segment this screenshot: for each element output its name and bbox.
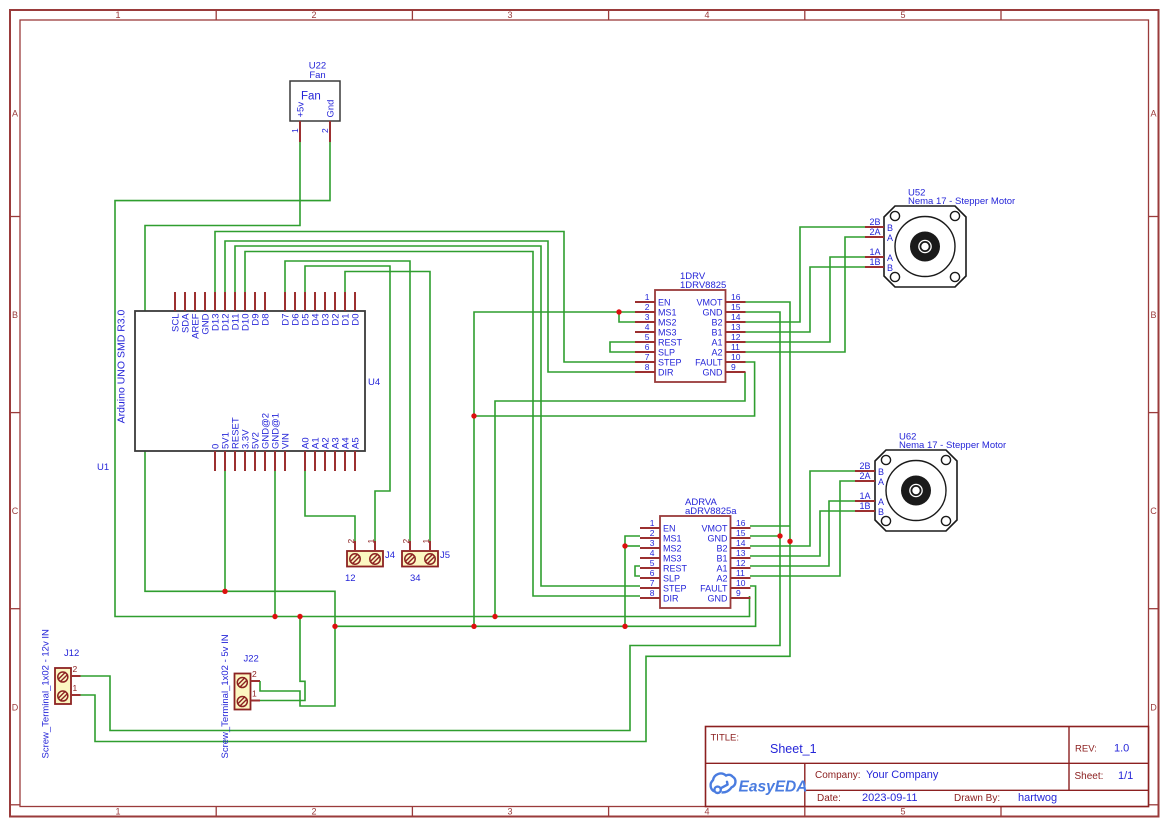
- screw terminal J22 Screw_Terminal_1x02 - 5v IN: [220, 634, 259, 758]
- U52 pin 2B: [865, 217, 893, 233]
- svg-text:2: 2: [645, 302, 650, 312]
- Arduino pin D2 (top): [331, 292, 342, 326]
- wire Arduino D11 to U3 STEP: [235, 246, 640, 586]
- svg-text:16: 16: [731, 292, 741, 302]
- U3 pin 11 A2: [716, 568, 750, 583]
- svg-text:B2: B2: [716, 544, 727, 554]
- J12 pin 1: [71, 683, 81, 695]
- svg-text:MS2: MS2: [663, 544, 682, 554]
- wire U2 FAULT to +5V vertical: [474, 362, 755, 416]
- svg-text:1/1: 1/1: [1118, 770, 1133, 782]
- svg-text:A: A: [878, 477, 884, 487]
- Arduino pin D5 (top): [301, 292, 312, 326]
- wire U3 B2 to U62 2B: [750, 471, 855, 546]
- junction dot at 225,591.3: [222, 589, 227, 594]
- U2 pin 1 EN: [635, 292, 671, 307]
- U2 pin 13 B1: [711, 322, 745, 337]
- svg-text:GND: GND: [708, 594, 729, 604]
- svg-text:GND: GND: [703, 368, 724, 378]
- Arduino pin D13 (top): [211, 292, 222, 331]
- U3 pin 3 MS2: [640, 538, 682, 553]
- Arduino pin A4 (bottom): [341, 437, 352, 471]
- svg-text:D0: D0: [351, 314, 362, 326]
- svg-text:MS1: MS1: [658, 308, 677, 318]
- Arduino pin D6 (top): [291, 292, 302, 326]
- svg-text:2: 2: [311, 10, 316, 20]
- svg-text:A: A: [878, 497, 884, 507]
- svg-text:C: C: [12, 506, 19, 516]
- Arduino pin D8 (top): [261, 292, 272, 326]
- svg-text:D: D: [12, 703, 19, 713]
- svg-text:1A: 1A: [869, 247, 880, 257]
- U3 pin 13 B1: [716, 548, 750, 563]
- Arduino pin D3 (top): [321, 292, 332, 326]
- J4 pin 1: [366, 539, 376, 552]
- junction dot at 474,626.3: [471, 624, 476, 629]
- svg-text:FAULT: FAULT: [695, 358, 723, 368]
- svg-text:12: 12: [345, 573, 356, 584]
- svg-text:2023-09-11: 2023-09-11: [862, 792, 917, 804]
- svg-text:DIR: DIR: [663, 594, 679, 604]
- J22 pin 2: [251, 669, 261, 681]
- svg-text:SLP: SLP: [658, 348, 675, 358]
- fan U22 pin 2: [320, 121, 330, 142]
- svg-text:8: 8: [645, 362, 650, 372]
- svg-text:2A: 2A: [869, 227, 880, 237]
- svg-text:J22: J22: [244, 654, 259, 665]
- svg-text:Arduino UNO SMD R3.0: Arduino UNO SMD R3.0: [116, 309, 128, 423]
- svg-text:EasyEDA: EasyEDA: [739, 779, 808, 796]
- svg-text:REST: REST: [658, 338, 683, 348]
- svg-text:B: B: [878, 507, 884, 517]
- wire U2 GND9 to GND rail: [495, 372, 745, 617]
- Arduino pin SCL (top): [171, 292, 182, 332]
- U2 pin 14 B2: [711, 312, 745, 327]
- svg-text:B2: B2: [711, 318, 722, 328]
- svg-text:1: 1: [366, 539, 376, 544]
- svg-text:13: 13: [731, 322, 741, 332]
- U3 pin 2 MS1: [640, 528, 682, 543]
- svg-text:2B: 2B: [859, 461, 870, 471]
- junction dot at 275,616.5: [272, 614, 277, 619]
- svg-text:STEP: STEP: [658, 358, 682, 368]
- stepper driver U2 1DRV8825: [655, 271, 726, 382]
- junction dot at 780,536: [777, 533, 782, 538]
- Arduino pin A3 (bottom): [331, 437, 342, 471]
- wire Arduino A0 to J4 pin2: [305, 471, 355, 541]
- wire U3 B1 to U62 1B: [750, 511, 855, 556]
- U2 pin 5 REST: [635, 332, 683, 347]
- svg-text:B: B: [887, 223, 893, 233]
- Arduino pin 5V1 (bottom): [221, 432, 232, 471]
- wire U3 REST-SLP tie: [635, 566, 640, 576]
- junction dot at 474,416: [471, 413, 476, 418]
- junction dot at 300,616.5: [297, 614, 302, 619]
- junction dot at 619,312: [616, 309, 621, 314]
- svg-text:MS3: MS3: [663, 554, 682, 564]
- svg-text:1.0: 1.0: [1114, 743, 1129, 755]
- svg-text:A: A: [887, 233, 893, 243]
- U3 pin 1 EN: [640, 518, 676, 533]
- svg-text:2: 2: [73, 664, 78, 674]
- svg-text:A: A: [1150, 109, 1156, 119]
- Arduino pin SDA (top): [181, 292, 192, 333]
- U3 pin 5 REST: [640, 558, 688, 573]
- svg-text:B: B: [887, 263, 893, 273]
- svg-text:13: 13: [736, 548, 746, 558]
- svg-text:1: 1: [73, 683, 78, 693]
- junction dot at 625,626.3: [622, 624, 627, 629]
- svg-text:12: 12: [736, 558, 746, 568]
- Arduino pin D9 (top): [251, 292, 262, 326]
- svg-text:2: 2: [320, 128, 330, 133]
- title block: [706, 727, 1149, 807]
- svg-text:VMOT: VMOT: [697, 298, 724, 308]
- svg-text:A: A: [12, 109, 18, 119]
- U2 pin 4 MS3: [635, 322, 677, 337]
- svg-text:hartwog: hartwog: [1018, 792, 1057, 804]
- U2 pin 9 GND: [703, 362, 746, 377]
- svg-text:6: 6: [650, 568, 655, 578]
- Arduino pin GND@1 (bottom): [271, 413, 282, 471]
- wire Arduino D10 to U3 DIR: [245, 252, 640, 597]
- Arduino pin D12 (top): [221, 292, 232, 331]
- svg-text:A1: A1: [711, 338, 722, 348]
- svg-text:7: 7: [645, 352, 650, 362]
- U2 pin 16 VMOT: [697, 292, 746, 307]
- svg-text:B: B: [878, 467, 884, 477]
- U3 pin 8 DIR: [640, 588, 679, 603]
- svg-text:3: 3: [645, 312, 650, 322]
- svg-text:aDRV8825a: aDRV8825a: [685, 506, 737, 517]
- U3 pin 14 B2: [716, 538, 750, 553]
- svg-text:1B: 1B: [869, 257, 880, 267]
- svg-text:10: 10: [731, 352, 741, 362]
- wire Arduino D7 to J5 pin2: [285, 261, 410, 541]
- svg-text:Company:: Company:: [815, 770, 861, 781]
- svg-text:J12: J12: [64, 648, 79, 659]
- svg-text:EN: EN: [663, 524, 676, 534]
- svg-text:1: 1: [290, 128, 300, 133]
- U62 pin 1A: [855, 491, 884, 507]
- svg-text:Drawn By:: Drawn By:: [954, 793, 1000, 804]
- U2 pin 3 MS2: [635, 312, 677, 327]
- Arduino pin VIN (bottom): [281, 433, 292, 471]
- stepper motor U52 Nema 17: [884, 188, 1015, 288]
- screw terminal J4: [345, 550, 395, 584]
- svg-text:1: 1: [645, 292, 650, 302]
- J5 pin 2: [401, 539, 411, 552]
- svg-text:1B: 1B: [859, 501, 870, 511]
- svg-text:Sheet_1: Sheet_1: [770, 742, 817, 756]
- svg-text:REV:: REV:: [1075, 744, 1097, 755]
- Arduino pin D1 (top): [341, 292, 352, 326]
- svg-text:GND: GND: [703, 308, 724, 318]
- fan U22 pin 1: [290, 121, 300, 142]
- U3 pin 12 A1: [716, 558, 750, 573]
- U2 pin 12 A1: [711, 332, 745, 347]
- wire Arduino D12 to U2 DIR: [225, 241, 635, 372]
- svg-text:1: 1: [115, 806, 120, 816]
- junction dot at 625,546: [622, 543, 627, 548]
- stepper driver U3 aDRV8825a: [660, 497, 737, 608]
- svg-text:Date:: Date:: [817, 793, 841, 804]
- svg-text:A1: A1: [716, 564, 727, 574]
- svg-text:STEP: STEP: [663, 584, 687, 594]
- screw terminal J12 Screw_Terminal_1x02 - 12v IN: [41, 629, 80, 758]
- wire U3 VMOT spur: [750, 525, 790, 527]
- svg-text:Fan: Fan: [301, 91, 321, 103]
- svg-text:A2: A2: [716, 574, 727, 584]
- wire Arduino D1 to J5 pin1: [345, 272, 430, 542]
- svg-text:B: B: [12, 310, 18, 320]
- Arduino pin RESET (bottom): [231, 417, 242, 471]
- svg-text:1: 1: [252, 689, 257, 699]
- Arduino pin 3.3V (bottom): [241, 429, 252, 471]
- svg-text:11: 11: [731, 342, 740, 352]
- wire U2 MS1 to +5V vertical: [474, 312, 635, 626]
- svg-text:5: 5: [900, 806, 905, 816]
- wire net +5V: U22 fan pin1 to 5V1 rail, J22 pin2: [145, 142, 335, 706]
- svg-text:J5: J5: [440, 550, 450, 561]
- svg-text:Screw_Terminal_1x02 - 5v IN: Screw_Terminal_1x02 - 5v IN: [220, 634, 231, 758]
- svg-text:4: 4: [704, 10, 709, 20]
- wire U3 MS1 to +5V rail: [625, 536, 640, 626]
- svg-text:5: 5: [650, 558, 655, 568]
- svg-text:2: 2: [346, 539, 356, 544]
- svg-text:U1: U1: [97, 462, 109, 473]
- svg-text:U4: U4: [368, 377, 380, 388]
- svg-text:5: 5: [645, 332, 650, 342]
- svg-text:5: 5: [900, 10, 905, 20]
- U3 pin 10 FAULT: [700, 578, 750, 593]
- wire U2 A1 to U52 1A: [745, 257, 865, 342]
- U2 pin 8 DIR: [635, 362, 674, 377]
- svg-text:12: 12: [731, 332, 741, 342]
- svg-text:34: 34: [410, 573, 421, 584]
- wire U3 MS2 spur: [625, 545, 640, 547]
- svg-text:2A: 2A: [859, 471, 870, 481]
- wire U3 GND15 spur: [750, 535, 780, 537]
- svg-text:2B: 2B: [869, 217, 880, 227]
- svg-text:B1: B1: [711, 328, 722, 338]
- svg-text:15: 15: [731, 302, 741, 312]
- wire U2 MS2 spur: [619, 312, 635, 322]
- Arduino pin A1 (bottom): [311, 437, 322, 471]
- U62 pin 2A: [855, 471, 884, 487]
- svg-text:Nema 17 - Stepper Motor: Nema 17 - Stepper Motor: [908, 196, 1015, 207]
- fan U22: [290, 61, 340, 122]
- svg-text:Gnd: Gnd: [326, 100, 337, 118]
- wire net GND: U22 fan pin2 to GND rail to U3 GND9: [115, 142, 750, 617]
- EasyEDA logo: [711, 774, 808, 796]
- wire VMOT trunk U2 VMOT to J12 pin1: [80, 302, 790, 742]
- svg-text:1: 1: [115, 10, 120, 20]
- svg-text:D: D: [1150, 703, 1157, 713]
- wire U2 REST-SLP tie: [610, 342, 635, 352]
- svg-text:A5: A5: [351, 437, 362, 449]
- svg-text:VIN: VIN: [281, 433, 292, 449]
- U2 pin 10 FAULT: [695, 352, 745, 367]
- U2 pin 7 STEP: [635, 352, 682, 367]
- J12 pin 2: [71, 664, 81, 676]
- U2 pin 15 GND: [703, 302, 746, 317]
- wire GND rail to J22 pin1: [260, 617, 305, 701]
- svg-text:2: 2: [252, 669, 257, 679]
- U3 pin 16 VMOT: [702, 518, 751, 533]
- svg-text:4: 4: [704, 806, 709, 816]
- wire U2 B1 to U52 1B: [745, 267, 865, 332]
- Arduino pin GND (top): [201, 292, 212, 335]
- svg-text:Screw_Terminal_1x02 - 12v IN: Screw_Terminal_1x02 - 12v IN: [41, 629, 52, 758]
- svg-text:GND: GND: [708, 534, 729, 544]
- svg-text:4: 4: [650, 548, 655, 558]
- wire U2 B2 to U52 2B: [745, 227, 865, 322]
- svg-text:EN: EN: [658, 298, 671, 308]
- svg-text:2: 2: [401, 539, 411, 544]
- Arduino pin A5 (bottom): [351, 437, 362, 471]
- Arduino pin D0 (top): [351, 292, 362, 326]
- Arduino pin D11 (top): [231, 292, 242, 330]
- wire net +5V horizontal rail to U3 FAULT: [335, 586, 756, 626]
- svg-text:Fan: Fan: [309, 70, 325, 81]
- svg-text:7: 7: [650, 578, 655, 588]
- svg-text:9: 9: [731, 362, 736, 372]
- Arduino pin 0 (bottom): [211, 444, 222, 471]
- svg-text:3: 3: [650, 538, 655, 548]
- junction dot at 335,626.3: [332, 624, 337, 629]
- svg-text:Nema 17 - Stepper Motor: Nema 17 - Stepper Motor: [899, 440, 1006, 451]
- U62 pin 1B: [855, 501, 884, 517]
- U52 pin 1B: [865, 257, 893, 273]
- Arduino pin 5V2 (bottom): [251, 432, 262, 471]
- Arduino pin D4 (top): [311, 292, 322, 326]
- svg-text:FAULT: FAULT: [700, 584, 728, 594]
- svg-text:D8: D8: [261, 314, 272, 326]
- svg-text:B: B: [1150, 310, 1156, 320]
- wire Arduino D13 to U2 STEP: [215, 232, 635, 363]
- U52 pin 1A: [865, 247, 893, 263]
- svg-text:9: 9: [736, 588, 741, 598]
- svg-text:1: 1: [650, 518, 655, 528]
- svg-text:8: 8: [650, 588, 655, 598]
- stepper motor U62 Nema 17: [875, 432, 1006, 532]
- wire Arduino D5 to J4 pin1: [305, 266, 390, 541]
- U3 pin 6 SLP: [640, 568, 680, 583]
- junction dot at 495,616.5: [492, 614, 497, 619]
- svg-text:C: C: [1150, 506, 1157, 516]
- svg-text:2: 2: [311, 806, 316, 816]
- U62 pin 2B: [855, 461, 884, 477]
- svg-text:REST: REST: [663, 564, 688, 574]
- Arduino pin A0 (bottom): [301, 437, 312, 471]
- Arduino pin GND@2 (bottom): [261, 413, 272, 471]
- wire Arduino 5V1 to +5V rail: [224, 471, 226, 591]
- svg-text:1: 1: [421, 539, 431, 544]
- svg-text:Your Company: Your Company: [866, 769, 939, 781]
- svg-text:DIR: DIR: [658, 368, 674, 378]
- svg-text:10: 10: [736, 578, 746, 588]
- svg-text:6: 6: [645, 342, 650, 352]
- Arduino pin D7 (top): [281, 292, 292, 326]
- U2 pin 11 A2: [711, 342, 745, 357]
- svg-text:2: 2: [650, 528, 655, 538]
- Arduino pin D10 (top): [241, 292, 252, 331]
- junction dot at 790,541.3: [787, 539, 792, 544]
- svg-text:16: 16: [736, 518, 746, 528]
- svg-text:J4: J4: [385, 550, 395, 561]
- J4 pin 2: [346, 539, 356, 552]
- Arduino pin AREF (top): [191, 292, 202, 339]
- wire GND trunk U2 GND15 to J12 pin2: [80, 312, 780, 731]
- Arduino UNO U1/U4 body: [97, 309, 380, 473]
- U3 pin 9 GND: [708, 588, 751, 603]
- svg-text:3: 3: [507, 806, 512, 816]
- wire U2 A2 to U52 2A: [745, 237, 865, 352]
- svg-text:3: 3: [507, 10, 512, 20]
- svg-text:B1: B1: [716, 554, 727, 564]
- svg-text:A: A: [887, 253, 893, 263]
- wire U3 A2 to U62 2A: [750, 481, 855, 576]
- U3 pin 4 MS3: [640, 548, 682, 563]
- svg-text:SLP: SLP: [663, 574, 680, 584]
- svg-text:1A: 1A: [859, 491, 870, 501]
- U2 pin 6 SLP: [635, 342, 675, 357]
- svg-text:MS3: MS3: [658, 328, 677, 338]
- svg-text:1DRV8825: 1DRV8825: [680, 280, 726, 291]
- U2 pin 2 MS1: [635, 302, 677, 317]
- U3 pin 15 GND: [708, 528, 751, 543]
- wire Arduino GND@1 to GND rail: [274, 471, 276, 617]
- wire U3 A1 to U62 1A: [750, 501, 855, 566]
- svg-text:Sheet:: Sheet:: [1075, 771, 1104, 782]
- svg-text:14: 14: [736, 538, 746, 548]
- svg-text:MS1: MS1: [663, 534, 682, 544]
- svg-text:14: 14: [731, 312, 741, 322]
- svg-text:11: 11: [736, 568, 745, 578]
- svg-text:4: 4: [645, 322, 650, 332]
- J22 pin 1: [251, 689, 261, 701]
- svg-text:15: 15: [736, 528, 746, 538]
- Arduino pin A2 (bottom): [321, 437, 332, 471]
- svg-text:+5v: +5v: [296, 102, 307, 118]
- svg-text:VMOT: VMOT: [702, 524, 729, 534]
- U3 pin 7 STEP: [640, 578, 687, 593]
- screw terminal J5: [402, 550, 450, 584]
- svg-text:A2: A2: [711, 348, 722, 358]
- U52 pin 2A: [865, 227, 893, 243]
- J5 pin 1: [421, 539, 431, 552]
- svg-text:MS2: MS2: [658, 318, 677, 328]
- svg-text:TITLE:: TITLE:: [711, 733, 740, 744]
